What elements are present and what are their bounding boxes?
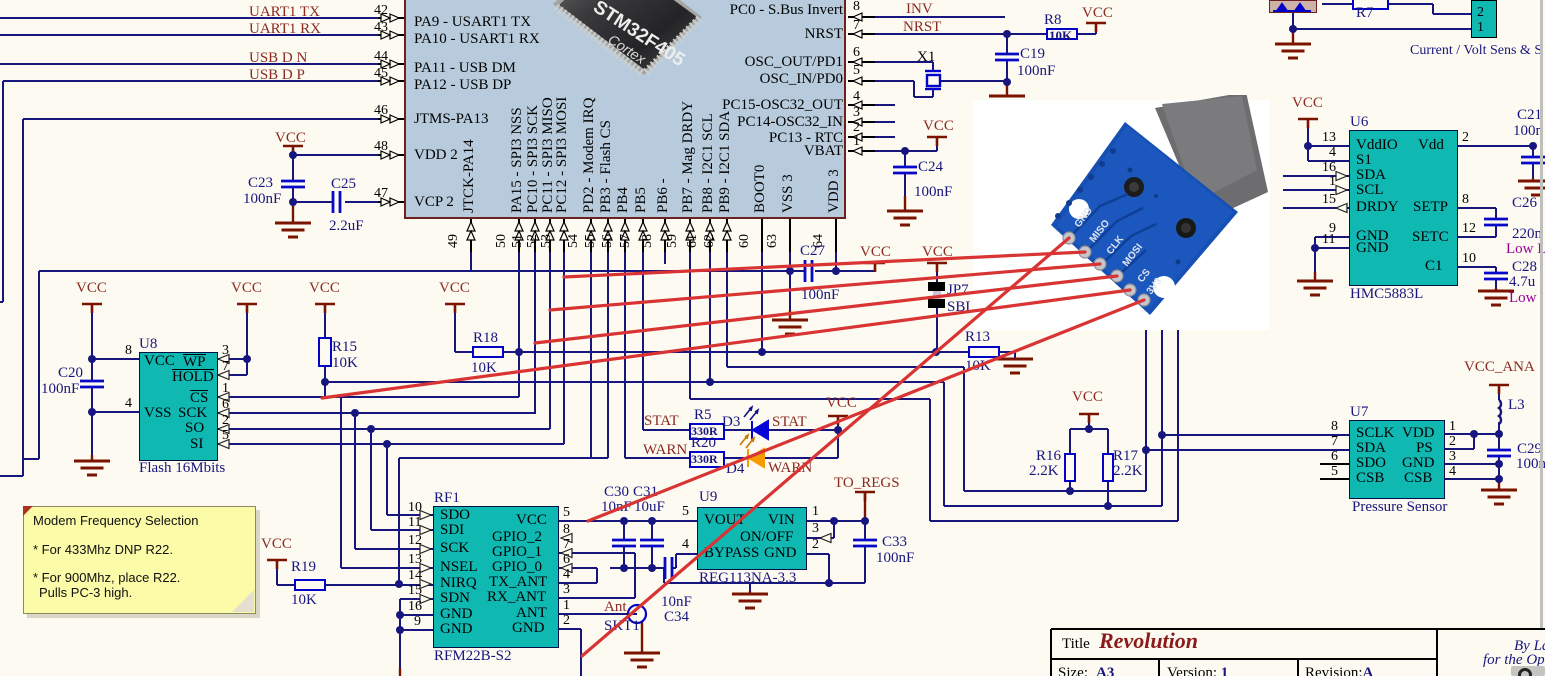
- power VCC at C23: [283, 146, 303, 155]
- wire WARN row: [625, 457, 689, 459]
- ground U9: [732, 594, 768, 608]
- wire R19 NIRQ: [276, 560, 278, 585]
- pin numbers bottom rotated: [446, 234, 462, 248]
- ground U6 GND: [1297, 281, 1333, 295]
- wire RF1 GND pin2: [557, 628, 581, 630]
- U8 pins: [144, 354, 175, 369]
- ground C24: [887, 211, 923, 225]
- inductor L3: [1499, 400, 1501, 424]
- wire SBL rail R18-JP7-R13: [519, 351, 936, 353]
- power VCC_ANA: [1489, 385, 1509, 394]
- ground SKT1: [624, 653, 660, 667]
- connector P-current-volt: [1471, 0, 1497, 38]
- wire pin60 BOOT0: [761, 220, 763, 352]
- power VCC at VDD3 rail: [865, 263, 885, 272]
- pin numbers right: [853, 0, 860, 14]
- wire pin63 VSS3: [789, 220, 791, 310]
- node C23 branch: [292, 146, 294, 181]
- power VCC at R16 R17: [1079, 414, 1099, 423]
- net labels UART1 TX / UART1 RX: [249, 5, 320, 20]
- pressure sensor U7: [1349, 420, 1445, 499]
- capacitor C30: [612, 540, 636, 546]
- ground VSS3: [772, 320, 808, 334]
- solder pins: [1063, 232, 1150, 306]
- wire STAT row: [643, 429, 689, 431]
- wire RF1 VCC rail: [557, 520, 697, 522]
- resistor R16: [1064, 453, 1076, 482]
- capacitor C29: [1487, 450, 1511, 456]
- wire C19: [1006, 34, 1008, 54]
- wire SI net U8 pin5: [216, 443, 564, 445]
- ground top-right: [1275, 44, 1311, 58]
- wire RF1 ANT: [557, 613, 628, 615]
- power VCC at C20: [82, 304, 102, 313]
- wire R16 R17: [1088, 414, 1090, 429]
- ground C20: [74, 461, 110, 475]
- resistor R20 330R: [689, 451, 725, 468]
- capacitor C34: [665, 557, 672, 579]
- traces: [1071, 194, 1156, 275]
- resistor R19: [294, 579, 326, 591]
- LED D4: [748, 449, 764, 467]
- wire pin64 VDD3: [835, 220, 837, 271]
- red leader pin52 wire to CLK pad: [550, 264, 1100, 310]
- capacitor C28: [1484, 273, 1508, 279]
- wire pin56 to WARN: [624, 220, 626, 458]
- board: [1051, 122, 1238, 315]
- wire U8 right pins 3,7: [216, 358, 247, 360]
- flash U8: [139, 352, 218, 461]
- wire UART1_TX: [0, 17, 404, 19]
- wire IRQ net: [399, 457, 608, 459]
- wire R18 VCC lead: [454, 304, 456, 352]
- MCU pin stubs and port diamonds: [378, 13, 875, 252]
- capacitor C25: [333, 191, 340, 213]
- silkscreen labels: [1073, 206, 1165, 297]
- red leader CS junction to CS pad: [322, 290, 1130, 398]
- wire pin54: [590, 220, 592, 458]
- red annotation lines: [322, 238, 1144, 656]
- radio RF1: [433, 506, 559, 648]
- power VCC at VBAT: [927, 137, 947, 146]
- wire U9 right: [805, 520, 865, 522]
- red leader RF1 VCC to 3V3 pad: [588, 300, 1144, 521]
- wire U6 DRDY: [1283, 207, 1349, 209]
- power VCC at U6: [1298, 119, 1318, 128]
- wire U6 SCL: [1283, 189, 1349, 191]
- wire pin52: [549, 220, 551, 429]
- wire VDD2: [293, 154, 404, 156]
- resistor R8 with value: [1046, 28, 1078, 40]
- power VCC at LEDs: [828, 416, 848, 425]
- LED D3: [752, 421, 768, 439]
- wire U6 SETP C26: [1456, 207, 1496, 209]
- wire U8 left: [92, 358, 139, 360]
- wire UART1_RX: [0, 34, 404, 36]
- wire pin50 SPI3 NSS: [518, 220, 520, 397]
- wire top right net: [1292, 13, 1294, 29]
- power VCC at R18: [445, 304, 465, 313]
- resistor R7 partial: [1352, 0, 1389, 10]
- MCU U-main STM32: [404, 0, 846, 219]
- capacitor C33: [853, 540, 877, 546]
- wire INV: [848, 16, 1005, 18]
- red leader pin53 wire to MISO pad: [564, 252, 1085, 277]
- SKT1 antenna socket: [628, 605, 646, 623]
- wire RF1 gpio0-txant: [557, 567, 597, 569]
- capacitor C31: [640, 540, 664, 546]
- capacitor C27: [805, 260, 812, 282]
- wire SDN-GND RF1: [400, 598, 433, 600]
- component top-right partial: [1269, 0, 1317, 13]
- chip pin rows: [556, 7, 700, 74]
- wire pin58 stub: [664, 220, 666, 264]
- wire pins 4,3,2 stubs: [848, 104, 895, 106]
- wire pin62 net: [726, 220, 728, 367]
- wire VBAT: [848, 150, 937, 152]
- wire USB_D_N: [0, 63, 404, 65]
- wire CS net U8 pin1: [216, 396, 519, 398]
- RF1 pins: [440, 508, 470, 523]
- wire pin49: [470, 220, 472, 271]
- pin numbers left: [374, 4, 388, 18]
- power VCC at R15: [315, 304, 335, 313]
- capacitor C19: [995, 54, 1019, 60]
- holes: [1069, 199, 1089, 219]
- pin direction arrows U8/RF1/U9/U6: [218, 172, 1347, 604]
- ground C23: [275, 223, 311, 237]
- chip body: [553, 0, 702, 75]
- wire pin51: [534, 220, 536, 414]
- JP7 solder jumper: [928, 282, 945, 291]
- capacitor C23: [281, 181, 305, 187]
- resistor R18: [472, 346, 504, 358]
- power VCC at JP7: [927, 263, 947, 272]
- wire U6 GND: [1315, 236, 1349, 238]
- wire U6 SDA: [1283, 175, 1349, 177]
- wire pin57 to STAT: [642, 220, 644, 430]
- wire VCC_ANA stem: [1498, 385, 1500, 400]
- capacitor C26: [1484, 219, 1508, 225]
- U9 pins: [704, 513, 746, 528]
- ground C29/U7: [1481, 490, 1517, 504]
- regulator U9: [697, 507, 807, 570]
- U6 pins: [1356, 138, 1398, 153]
- wire RF1 gpio1-rxant: [557, 552, 635, 554]
- power port TO_REGS: [855, 492, 875, 501]
- red leader pin51 wire to MOSI pad: [535, 276, 1117, 343]
- wire U6 Vdd right: [1456, 145, 1533, 147]
- capacitor C24: [893, 167, 917, 173]
- capacitor C21: [1521, 157, 1545, 163]
- wire R15 leads: [324, 304, 326, 337]
- wire USB_D_P: [3, 80, 404, 82]
- wire NRST: [848, 33, 1046, 35]
- wire OSC X1: [848, 61, 933, 63]
- wire U7 right: [1443, 433, 1499, 435]
- resistor R13: [968, 346, 1000, 358]
- capacitor C20: [80, 381, 104, 387]
- ground C19: [989, 96, 1025, 110]
- sd card: [1155, 92, 1268, 222]
- vertical pin names bottom inside: [461, 139, 478, 213]
- ground C21: [1518, 181, 1545, 195]
- crystal X1: [925, 71, 941, 89]
- resistor R15: [318, 337, 332, 367]
- pin names left inside: [414, 15, 531, 30]
- U7 pins: [1356, 426, 1394, 441]
- wire long JTCK rail: [39, 270, 805, 272]
- wire pin53: [563, 220, 565, 444]
- power VCC at U8 WP: [237, 304, 257, 313]
- wire U6 VCC pins: [1307, 119, 1309, 161]
- wire VCP2 / C25: [293, 201, 333, 203]
- wire JTMS-PA13: [23, 118, 404, 120]
- wire pin59 net to photo col A: [689, 220, 691, 399]
- sheet edge: [1540, 0, 1543, 628]
- wire R17 bottom rail: [943, 382, 945, 506]
- wire SO net U8 pin2: [216, 428, 550, 430]
- wire pin55: [607, 220, 609, 458]
- pin names right inside: [698, 0, 843, 2]
- wire JP7 stem: [936, 263, 938, 283]
- power VCC at R19: [267, 560, 287, 569]
- ground R13: [997, 359, 1033, 373]
- power VCC at R8: [1086, 23, 1106, 32]
- wire SCK net U8 pin6: [216, 412, 535, 414]
- wire R15 rail: [325, 381, 944, 383]
- wire U6 C1 C28: [1456, 266, 1496, 268]
- wire pin61: [709, 220, 711, 382]
- U7 left stub pins: [1320, 464, 1349, 479]
- red leader RF1 GND to GND pad: [582, 238, 1069, 656]
- resistor R17: [1102, 453, 1114, 482]
- ground C28: [1478, 291, 1514, 305]
- magnetometer U6: [1349, 130, 1458, 286]
- resistor R5 330R: [689, 423, 725, 440]
